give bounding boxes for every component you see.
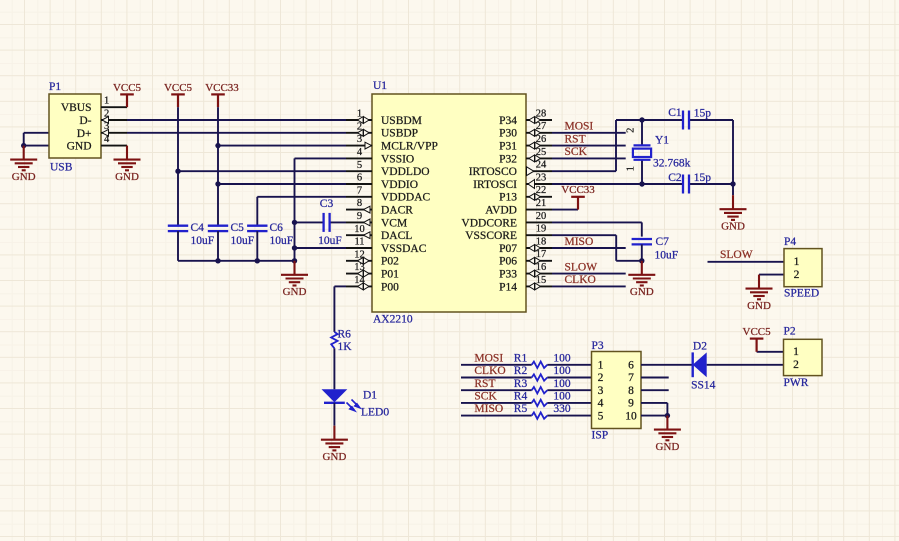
node net label SCK <box>474 391 497 403</box>
node net label SLOW <box>565 261 598 273</box>
wire <box>127 132 346 134</box>
svg-text:USBDP: USBDP <box>381 128 418 140</box>
resistor R4 <box>514 391 571 407</box>
svg-text:P32: P32 <box>499 153 517 165</box>
pin 7 U1 <box>346 185 431 203</box>
svg-text:4: 4 <box>357 147 363 158</box>
wire <box>178 170 346 172</box>
node net label MISO <box>565 236 594 248</box>
pin 21 U1 <box>485 198 552 217</box>
node net label SCK <box>565 146 588 158</box>
svg-text:P4: P4 <box>784 236 796 248</box>
svg-text:SLOW: SLOW <box>565 261 598 273</box>
svg-text:P14: P14 <box>499 281 517 293</box>
wire <box>295 221 324 223</box>
wire net SLOW <box>708 261 785 263</box>
svg-text:C5: C5 <box>231 222 245 234</box>
resistor R3 <box>514 378 571 394</box>
wire pin9 <box>641 403 667 416</box>
ground <box>281 261 308 298</box>
svg-text:1: 1 <box>104 96 109 107</box>
svg-text:19: 19 <box>536 224 547 235</box>
svg-text:15p: 15p <box>694 108 712 120</box>
svg-text:10uF: 10uF <box>318 235 342 247</box>
svg-text:330: 330 <box>553 403 571 415</box>
svg-text:P01: P01 <box>381 269 399 281</box>
wire pin20 <box>552 222 642 236</box>
node junction VCC33/VDDIO <box>215 181 220 186</box>
svg-text:VSSIO: VSSIO <box>381 153 414 165</box>
svg-text:5: 5 <box>357 160 362 171</box>
svg-text:MOSI: MOSI <box>474 352 503 364</box>
svg-text:R2: R2 <box>514 365 528 377</box>
svg-text:AX2210: AX2210 <box>373 314 413 326</box>
pin 12 U1 <box>346 249 399 267</box>
svg-text:21: 21 <box>536 198 547 209</box>
capacitor C4 <box>168 222 214 261</box>
svg-text:RST: RST <box>565 133 586 145</box>
svg-text:3: 3 <box>357 134 362 145</box>
node junction VCC5/VDDLDO <box>175 169 180 174</box>
svg-text:D+: D+ <box>77 128 92 140</box>
ground crystal <box>720 195 747 232</box>
svg-text:U1: U1 <box>373 80 387 92</box>
wire net RST <box>461 389 592 391</box>
svg-text:VCC33: VCC33 <box>561 184 595 196</box>
pin 27 U1 <box>499 121 552 140</box>
op-amp U1 body <box>372 80 526 326</box>
node junction VCC33/MCLR <box>215 143 220 148</box>
svg-text:32.768k: 32.768k <box>653 158 691 170</box>
svg-text:C1: C1 <box>668 107 682 119</box>
svg-text:D1: D1 <box>363 390 377 402</box>
node junction C5 bottom <box>215 258 220 263</box>
pin 1 U1 <box>346 109 422 127</box>
svg-text:GND: GND <box>747 300 771 312</box>
svg-text:D2: D2 <box>693 341 707 353</box>
wire <box>295 247 347 249</box>
wire pin24 to crystal rail <box>552 120 682 171</box>
node net label MOSI <box>565 121 594 133</box>
svg-text:DACR: DACR <box>381 205 413 217</box>
wire net SCK <box>461 402 592 404</box>
svg-text:VCC5: VCC5 <box>164 82 193 94</box>
wire net MISO <box>552 247 626 249</box>
svg-text:R4: R4 <box>514 391 528 403</box>
svg-text:VDDCORE: VDDCORE <box>461 217 517 229</box>
svg-text:10uF: 10uF <box>231 235 255 247</box>
node junction VSSDAC <box>292 245 297 250</box>
resistor R1 <box>514 352 571 368</box>
wire <box>218 145 346 147</box>
svg-text:VSSDAC: VSSDAC <box>381 243 427 255</box>
wire <box>217 107 219 226</box>
svg-text:9: 9 <box>628 398 634 410</box>
ground D1 <box>321 426 348 463</box>
pin 14 U1 <box>346 275 399 293</box>
svg-text:15p: 15p <box>694 172 712 184</box>
power VCC5 rail <box>164 82 193 107</box>
node net label CLKO <box>474 365 505 377</box>
pin 4 P1 <box>101 134 127 146</box>
connector P3 <box>592 340 642 442</box>
svg-text:24: 24 <box>536 160 547 171</box>
svg-text:2: 2 <box>598 372 604 384</box>
node junction pin9/10 <box>665 413 670 418</box>
crystal Y1 <box>626 120 691 184</box>
svg-text:VDDDAC: VDDDAC <box>381 192 431 204</box>
svg-text:7: 7 <box>628 372 634 384</box>
power VCC33 at AVDD <box>561 184 595 209</box>
pin 20 U1 <box>461 211 552 230</box>
svg-text:SPEED: SPEED <box>784 288 819 300</box>
node junction C6 bottom <box>255 258 260 263</box>
pin 5 U1 <box>346 160 430 178</box>
resistor R5 <box>514 403 571 419</box>
connector P4 <box>784 236 822 300</box>
ground <box>114 146 141 183</box>
connector P1 <box>49 81 101 174</box>
pin 3 P1 <box>101 121 127 136</box>
svg-text:MISO: MISO <box>565 236 594 248</box>
svg-text:MISO: MISO <box>474 403 503 415</box>
svg-text:C3: C3 <box>320 198 334 210</box>
power VCC5 at P1 <box>113 82 142 107</box>
node net label SLOW <box>720 249 753 261</box>
svg-text:1: 1 <box>793 346 799 358</box>
wire net RST <box>552 145 626 147</box>
svg-text:R1: R1 <box>514 352 528 364</box>
wire net CLKO <box>552 285 626 287</box>
wire pin6 <box>641 364 693 366</box>
node junction Y1 top <box>639 117 644 122</box>
connector P2 <box>784 325 823 389</box>
svg-text:R5: R5 <box>514 403 528 415</box>
svg-text:3: 3 <box>598 385 604 397</box>
wire <box>333 348 335 389</box>
svg-text:RST: RST <box>474 378 495 390</box>
svg-text:6: 6 <box>357 173 362 184</box>
wire net SCK <box>552 157 626 159</box>
pin 17 U1 <box>499 249 552 268</box>
node junction bus end <box>292 258 297 263</box>
node junction C7 bottom <box>639 258 644 263</box>
svg-text:10: 10 <box>354 224 365 235</box>
svg-text:P31: P31 <box>499 141 517 153</box>
svg-text:VCM: VCM <box>381 217 407 229</box>
pin 18 U1 <box>499 236 552 255</box>
node junction P1 left <box>21 143 26 148</box>
svg-text:SS14: SS14 <box>691 380 716 392</box>
svg-text:C2: C2 <box>668 172 682 184</box>
power VCC5 at P2 <box>743 326 772 352</box>
wire <box>690 120 733 184</box>
wire pin7 <box>641 377 669 379</box>
svg-text:1: 1 <box>794 256 800 268</box>
wire <box>127 119 346 121</box>
svg-text:CLKO: CLKO <box>565 274 596 286</box>
wire pin10 <box>641 415 667 417</box>
svg-text:VSSCORE: VSSCORE <box>465 230 517 242</box>
node net label RST <box>565 133 586 145</box>
pin 1 P1 <box>101 96 127 108</box>
wire <box>690 184 733 195</box>
capacitor C5 <box>208 222 254 261</box>
svg-text:P3: P3 <box>592 340 604 352</box>
svg-text:USB: USB <box>50 162 73 174</box>
svg-text:100: 100 <box>553 391 571 403</box>
svg-text:GND: GND <box>630 286 654 298</box>
capacitor C2 <box>668 172 711 194</box>
svg-text:IRTOSCO: IRTOSCO <box>469 166 517 178</box>
svg-text:D-: D- <box>79 115 91 127</box>
svg-text:4: 4 <box>598 398 604 410</box>
pin 22 U1 <box>499 185 552 204</box>
svg-text:8: 8 <box>628 385 634 397</box>
wire P00 branch <box>334 286 346 332</box>
pin 25 U1 <box>499 147 552 166</box>
svg-text:2: 2 <box>793 359 799 371</box>
svg-text:GND: GND <box>322 451 346 463</box>
svg-text:P1: P1 <box>49 81 61 93</box>
pin 3 U1 <box>346 134 438 152</box>
svg-text:GND: GND <box>283 286 307 298</box>
svg-text:VCC5: VCC5 <box>743 326 772 338</box>
node net label RST <box>474 378 495 390</box>
wire net MOSI <box>552 132 626 134</box>
wire <box>24 133 49 146</box>
svg-text:LED0: LED0 <box>361 406 389 418</box>
svg-text:P06: P06 <box>499 256 517 268</box>
svg-text:GND: GND <box>12 171 36 183</box>
pin 6 U1 <box>346 173 418 191</box>
wire net SLOW <box>552 273 626 275</box>
svg-text:MCLR/VPP: MCLR/VPP <box>381 141 438 153</box>
svg-text:Y1: Y1 <box>655 135 669 147</box>
svg-text:9: 9 <box>357 211 362 222</box>
svg-text:USBDM: USBDM <box>381 115 422 127</box>
svg-text:VCC5: VCC5 <box>113 82 142 94</box>
svg-text:P02: P02 <box>381 256 399 268</box>
svg-text:7: 7 <box>357 185 362 196</box>
pin 9 U1 <box>346 211 407 229</box>
wire pin23 rail <box>552 183 682 185</box>
svg-text:VDDLDO: VDDLDO <box>381 166 430 178</box>
svg-text:SCK: SCK <box>565 146 588 158</box>
pin 2 P1 <box>101 108 127 123</box>
svg-text:ISP: ISP <box>592 430 609 442</box>
svg-text:5: 5 <box>598 410 604 422</box>
svg-text:P34: P34 <box>499 115 517 127</box>
wire <box>294 158 296 260</box>
svg-text:2: 2 <box>626 128 637 133</box>
svg-text:VBUS: VBUS <box>61 102 92 114</box>
svg-text:R6: R6 <box>338 329 352 341</box>
svg-text:23: 23 <box>536 172 547 183</box>
node junction C2 right <box>730 181 735 186</box>
pin 26 U1 <box>499 134 552 153</box>
node net label MOSI <box>474 352 503 364</box>
svg-text:VCC33: VCC33 <box>205 82 239 94</box>
svg-text:8: 8 <box>357 198 362 209</box>
node junction C3 left <box>292 220 297 225</box>
wire pin1 P2 <box>757 351 784 353</box>
node net label CLKO <box>565 274 596 286</box>
svg-text:10uF: 10uF <box>655 250 679 262</box>
svg-text:CLKO: CLKO <box>474 365 505 377</box>
capacitor C3 <box>318 198 342 247</box>
svg-text:100: 100 <box>553 365 571 377</box>
svg-text:1: 1 <box>598 360 604 372</box>
capacitor C6 <box>247 222 293 261</box>
pin 2 U1 <box>346 121 418 139</box>
svg-text:4: 4 <box>104 134 110 145</box>
resistor R2 <box>514 365 571 381</box>
svg-text:P07: P07 <box>499 243 517 255</box>
svg-text:1K: 1K <box>338 341 353 353</box>
wire <box>295 157 347 159</box>
svg-text:DACL: DACL <box>381 230 412 242</box>
pin 11 U1 <box>346 237 427 255</box>
svg-text:C7: C7 <box>656 236 670 248</box>
svg-text:P00: P00 <box>381 281 399 293</box>
svg-text:VDDIO: VDDIO <box>381 179 418 191</box>
wire <box>178 260 295 262</box>
resistor R6 <box>331 329 352 353</box>
svg-text:GND: GND <box>721 221 745 233</box>
svg-text:SLOW: SLOW <box>720 249 753 261</box>
svg-text:1: 1 <box>626 166 637 171</box>
ground C7 <box>628 261 655 298</box>
svg-text:AVDD: AVDD <box>485 205 517 217</box>
pin 8 U1 <box>346 198 413 216</box>
ground <box>10 146 37 183</box>
svg-text:PWR: PWR <box>784 377 809 389</box>
svg-text:10: 10 <box>625 410 637 422</box>
diode D2 <box>691 341 716 392</box>
pin 28 U1 <box>499 108 552 127</box>
wire <box>333 403 335 426</box>
svg-text:P30: P30 <box>499 128 517 140</box>
capacitor C7 <box>632 236 679 261</box>
svg-text:P13: P13 <box>499 192 517 204</box>
svg-text:GND: GND <box>67 141 92 153</box>
pin 16 U1 <box>499 262 552 281</box>
wire pin19 <box>552 235 642 261</box>
svg-text:11: 11 <box>354 237 364 248</box>
svg-text:C4: C4 <box>191 222 205 234</box>
wire net MOSI <box>461 364 592 366</box>
svg-text:10uF: 10uF <box>270 235 294 247</box>
LED D1 <box>322 389 390 418</box>
svg-text:R3: R3 <box>514 378 528 390</box>
svg-text:6: 6 <box>628 360 634 372</box>
svg-text:10uF: 10uF <box>191 235 215 247</box>
capacitor C1 <box>668 107 711 130</box>
power VCC33 rail <box>205 82 239 107</box>
pin 13 U1 <box>346 262 399 280</box>
wire <box>177 107 179 226</box>
wire <box>552 209 578 211</box>
wire pin8 <box>641 389 669 391</box>
pin 19 U1 <box>465 224 552 243</box>
wire net CLKO <box>461 377 592 379</box>
svg-text:100: 100 <box>553 352 571 364</box>
svg-text:MOSI: MOSI <box>565 121 594 133</box>
pin 15 U1 <box>499 275 552 294</box>
svg-text:SCK: SCK <box>474 391 497 403</box>
wire <box>218 183 346 185</box>
pin 10 U1 <box>346 224 412 242</box>
wire <box>24 132 49 134</box>
svg-text:100: 100 <box>553 378 571 390</box>
pin 24 U1 <box>469 160 552 179</box>
wire <box>330 221 346 223</box>
wire <box>707 364 784 366</box>
svg-text:GND: GND <box>115 171 139 183</box>
svg-text:C6: C6 <box>270 222 284 234</box>
pin 23 U1 <box>473 172 552 191</box>
wire pin2 P4 <box>759 274 784 276</box>
node net label MISO <box>474 403 503 415</box>
wire <box>257 197 346 226</box>
pin 4 U1 <box>346 147 414 165</box>
ground ISP <box>654 416 681 453</box>
ground P4 <box>746 275 773 312</box>
svg-text:P2: P2 <box>784 325 796 337</box>
svg-text:GND: GND <box>655 441 679 453</box>
svg-text:20: 20 <box>536 211 547 222</box>
svg-text:P33: P33 <box>499 269 517 281</box>
svg-text:IRTOSCI: IRTOSCI <box>473 179 517 191</box>
node junction Y1 bottom <box>639 181 644 186</box>
wire net MISO <box>461 415 592 417</box>
svg-text:2: 2 <box>794 269 800 281</box>
